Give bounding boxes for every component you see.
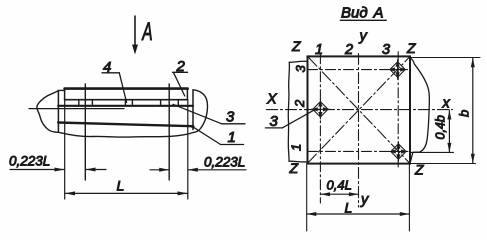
svg-text:3: 3 [270,113,279,130]
x axis centerline [267,109,453,111]
svg-text:2: 2 [176,58,186,75]
dimension 0,4L [320,192,358,196]
svg-text:у: у [360,192,369,208]
svg-text:X: X [266,92,278,108]
small ledge at left face top [58,89,64,91]
diagonal TL-BR [309,57,410,163]
dimension 0,223L left [10,168,106,172]
log right end (plan view) [410,58,429,164]
log item 1 outline (side view) [37,90,208,137]
diagonal BL-TR [308,57,410,163]
svg-text:3: 3 [293,65,308,73]
label 3 with leader [173,104,245,124]
log left end face [57,91,59,133]
svg-text:Z: Z [289,160,299,176]
pad row line 3 (horizontal, top) [308,69,411,71]
svg-text:L: L [345,200,353,216]
svg-text:у: у [359,29,368,45]
bottom extension line right (plan) [408,164,410,232]
right support centerline [168,84,170,180]
dimension L (side view) [65,191,188,195]
plate item 2 (side view) [65,89,188,100]
label 1 with leader [191,125,243,144]
svg-text:2: 2 [344,42,353,58]
pad row line 1 (vertical, left) [319,54,321,203]
svg-text:1: 1 [289,144,304,151]
svg-text:0,223L: 0,223L [9,154,50,169]
bottom extension line left (plan) [306,164,308,232]
bottom edge extension line [410,163,476,165]
extension line right (log end) [187,100,189,199]
log left end (plan view) [288,61,307,162]
pad marker left [311,100,330,119]
log top edge [58,105,193,107]
svg-text:3: 3 [226,109,235,126]
svg-text:4: 4 [103,59,111,76]
svg-text:Z: Z [406,40,416,56]
view direction arrow A [132,16,153,55]
svg-text:3: 3 [382,42,390,58]
dimension L (plan) [307,212,410,216]
svg-text:x: x [442,96,451,112]
svg-text:L: L [117,178,125,194]
title Vid A [340,5,386,22]
svg-text:1: 1 [315,42,323,58]
label 4 with leader [102,73,127,103]
svg-text:1: 1 [228,129,236,146]
dimension b [471,58,475,164]
pad marker bottom right [389,142,408,161]
svg-text:b: b [457,110,472,117]
pad row line 3 (vertical, right) [397,52,399,167]
dimension 0,4b [447,110,451,152]
log axis centerline [29,108,124,110]
svg-text:0,4L: 0,4L [327,177,352,192]
extension line left (log end) [64,100,66,199]
svg-text:Вид: Вид [341,5,368,22]
left support centerline [84,84,86,180]
pad row line 1 (horizontal, bottom) [308,150,411,152]
svg-text:0,223L: 0,223L [204,155,245,170]
top edge extension line [410,57,480,59]
log bottom edge [58,123,193,127]
svg-text:0,4b: 0,4b [434,115,448,139]
label 2 with leader [173,72,188,96]
y axis centerline [358,54,360,208]
svg-text:А: А [141,18,153,46]
label 3 with leader (plan) [265,110,314,128]
pad row bottom extension (0,4b) [411,151,454,153]
svg-text:Z: Z [291,38,301,54]
pads item 3 ticks (side view) [79,100,179,106]
pad marker top right [388,60,407,79]
svg-text:2: 2 [292,99,307,108]
svg-text:А: А [373,5,384,22]
dimension 0,223L right [150,168,246,172]
plate square (plan view) [308,56,411,163]
log right end face [192,90,194,130]
